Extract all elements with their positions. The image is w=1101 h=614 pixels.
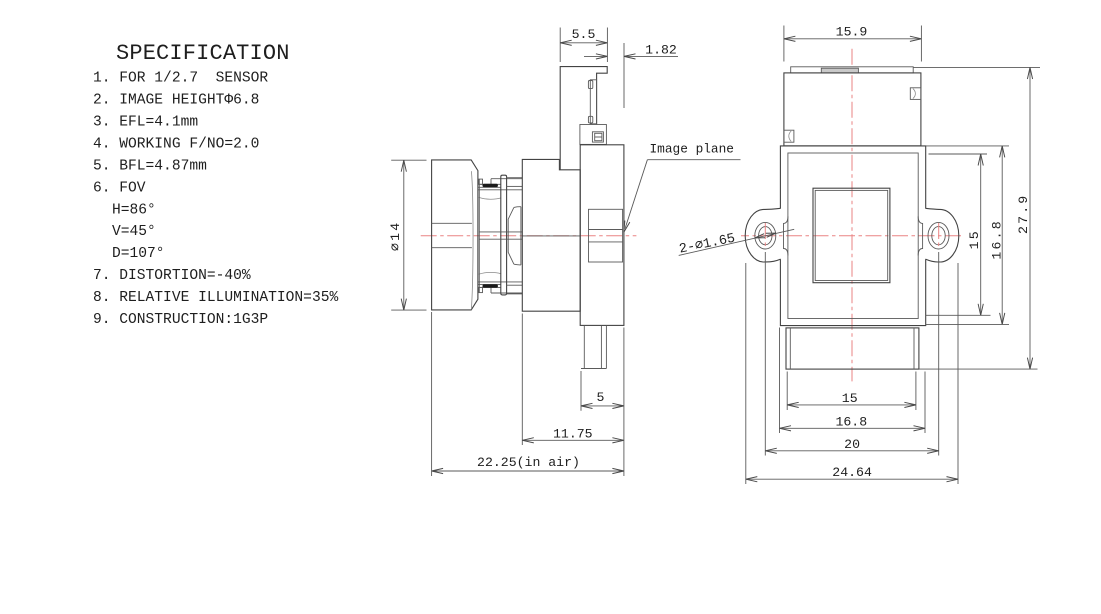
sensor window inner	[815, 190, 888, 280]
svg-text:5: 5	[597, 390, 605, 405]
dimension 1.82	[584, 55, 607, 57]
dimension 20 bottom	[765, 450, 938, 452]
module body inner face	[788, 153, 918, 319]
rear lens element profile	[508, 207, 514, 264]
dimension 5	[581, 405, 624, 407]
front view horizontal centerline	[741, 235, 962, 237]
left ear hole inner	[759, 227, 772, 245]
svg-text:∅14: ∅14	[388, 221, 403, 251]
right ear hole outer	[928, 222, 949, 249]
thread relief curve top	[479, 197, 501, 199]
connector block	[784, 73, 921, 146]
svg-text:3. EFL=4.1mm: 3. EFL=4.1mm	[93, 115, 198, 131]
flex connector top tab	[588, 81, 592, 89]
dimension 15 bottom	[787, 404, 916, 406]
svg-text:6. FOV: 6. FOV	[93, 181, 146, 197]
threaded neck bottom profile	[491, 292, 522, 294]
dimension 11.75 extension line	[521, 314, 523, 446]
svg-text:SPECIFICATION: SPECIFICATION	[116, 41, 290, 66]
svg-text:11.75: 11.75	[553, 426, 593, 441]
right mounting ear	[925, 208, 958, 262]
dimension 15.9	[784, 38, 922, 40]
dimension D14 extension lines	[391, 159, 426, 161]
bottom dimension extension lines	[786, 372, 788, 411]
connector top strip	[791, 67, 914, 73]
svg-text:7. DISTORTION=-40%: 7. DISTORTION=-40%	[93, 268, 251, 284]
svg-text:16.8: 16.8	[835, 414, 867, 429]
image plane leader underline	[647, 159, 740, 161]
dimension 1.82 extension line	[623, 43, 625, 108]
svg-text:15: 15	[967, 229, 982, 249]
board-to-connector base	[580, 125, 607, 145]
o-ring seal top	[483, 184, 498, 187]
retaining flange plate	[501, 175, 507, 295]
svg-text:27.9: 27.9	[1016, 194, 1031, 234]
sensor housing block	[580, 145, 624, 326]
rear group lines right of flange	[507, 177, 523, 179]
connector top strip grey tab	[821, 68, 858, 73]
mount screw symbol	[592, 132, 603, 142]
dimension 5.5 extension lines	[559, 28, 561, 63]
o-ring seal bottom	[483, 284, 498, 287]
svg-text:2. IMAGE HEIGHTΦ6.8: 2. IMAGE HEIGHTΦ6.8	[93, 93, 259, 109]
rear barrel left wall lines	[789, 328, 791, 369]
dimension 16.8 vertical	[1001, 146, 1003, 325]
axis edge line through holder	[522, 235, 580, 237]
connector block left latch	[784, 130, 794, 142]
flex connector body	[590, 80, 596, 124]
connector block right latch	[910, 88, 921, 100]
svg-text:H=86°: H=86°	[112, 202, 156, 218]
lens barrel	[432, 160, 478, 310]
dimension D14	[403, 160, 405, 310]
side view centerline (optical axis)	[421, 235, 637, 237]
lens barrel chamfer face curve	[471, 171, 473, 309]
rear barrel right wall lines	[913, 328, 915, 369]
left mounting ear	[745, 208, 781, 262]
hole callout leader	[679, 229, 795, 255]
image sensor package	[589, 209, 623, 262]
svg-text:Image plane: Image plane	[650, 141, 734, 156]
image plane leader	[625, 160, 647, 229]
svg-text:20: 20	[844, 437, 860, 452]
flex connector bottom tab	[588, 116, 592, 123]
svg-text:5.5: 5.5	[572, 27, 596, 42]
lens holder block	[522, 159, 580, 311]
dimension 11.75	[522, 439, 624, 441]
thread relief curve bottom	[479, 272, 501, 274]
dimension 5.5	[560, 42, 607, 44]
svg-text:15: 15	[842, 391, 858, 406]
svg-text:9. CONSTRUCTION:1G3P: 9. CONSTRUCTION:1G3P	[93, 312, 268, 328]
svg-text:16.8: 16.8	[990, 219, 1005, 259]
dimension 15.9 extension lines	[783, 26, 785, 62]
left ear hole outer	[755, 222, 776, 249]
svg-text:24.64: 24.64	[832, 465, 872, 480]
left ear body notch	[784, 216, 788, 255]
sensor board upper extension	[560, 67, 607, 170]
svg-text:4. WORKING F/NO=2.0: 4. WORKING F/NO=2.0	[93, 137, 259, 153]
dimension 22.25 extension lines	[431, 312, 433, 476]
neck left edge	[478, 179, 480, 293]
front view vertical centerline	[851, 49, 853, 382]
dimension 24.64 bottom	[746, 478, 958, 480]
svg-text:V=45°: V=45°	[112, 224, 156, 240]
right ear body notch	[918, 216, 922, 255]
spec list	[93, 71, 338, 329]
sensor window outer	[813, 188, 890, 283]
right ear hole inner	[932, 227, 945, 245]
svg-text:15.9: 15.9	[836, 25, 868, 40]
svg-text:22.25(in air): 22.25(in air)	[477, 455, 580, 470]
right hole vertical centerline	[938, 223, 940, 249]
svg-text:D=107°: D=107°	[112, 246, 165, 262]
dimension 27.9 vertical	[1029, 68, 1031, 370]
left hole vertical centerline	[764, 223, 766, 249]
module body outer	[780, 146, 925, 326]
svg-text:1.82: 1.82	[645, 43, 677, 58]
right dimension extension lines	[929, 153, 988, 155]
threaded neck top profile	[491, 178, 522, 180]
bottom mount boss	[583, 325, 585, 368]
dimension 5 extension line	[580, 371, 582, 411]
dimension 16.8 bottom	[780, 427, 926, 429]
svg-text:5. BFL=4.87mm: 5. BFL=4.87mm	[93, 159, 207, 175]
svg-text:1. FOR 1/2.7 SENSOR: 1. FOR 1/2.7 SENSOR	[93, 71, 268, 87]
svg-text:8. RELATIVE ILLUMINATION=35%: 8. RELATIVE ILLUMINATION=35%	[93, 290, 338, 306]
dimension 15 vertical	[980, 154, 982, 315]
rear barrel	[786, 328, 919, 369]
lens barrel front aperture lines	[432, 222, 472, 224]
dimension 22.25 (in air)	[432, 470, 624, 472]
aperture slot lines	[479, 231, 522, 233]
